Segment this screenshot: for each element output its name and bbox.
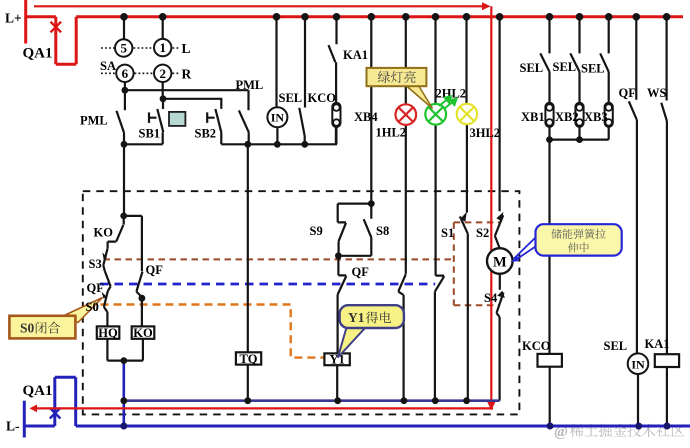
wire join PML-SB1 (124, 132, 163, 144)
svg-text:2: 2 (159, 66, 166, 81)
svg-text:S8: S8 (376, 224, 389, 238)
coil Y1 (324, 353, 349, 365)
QA1 red X mark (51, 22, 62, 33)
contact KO (108, 216, 124, 248)
svg-text:PML: PML (236, 78, 264, 92)
svg-text:5: 5 (120, 41, 127, 56)
brown dashed sub-box around S1 S2 (454, 222, 500, 305)
disconnector QA1 (blue, bottom) (24, 377, 75, 426)
lamp 3HL2 (yellow) (457, 104, 477, 124)
svg-text:6: 6 (122, 66, 129, 81)
S3 brown dashed linkage line (104, 258, 454, 260)
wire joining XB1 XB2 XB3 (550, 139, 609, 141)
green flow arrows at 2HL2 (439, 96, 457, 108)
svg-text:SEL: SEL (553, 60, 577, 74)
contact S0 (104, 291, 108, 326)
lamp 2HL2 (green) (425, 104, 446, 125)
L- bus (76, 425, 690, 428)
svg-text:SEL: SEL (520, 61, 544, 75)
wire join SB2 to XB4 column (221, 127, 336, 144)
svg-text:WS: WS (647, 86, 667, 100)
svg-text:IN: IN (271, 111, 285, 125)
svg-text:QF: QF (619, 86, 637, 100)
SA selector switch wires (124, 17, 163, 40)
junction dots L- bus (120, 423, 670, 430)
contact S3 (103, 248, 107, 271)
svg-text:XB4: XB4 (354, 110, 378, 124)
relay coil SEL IN (bottom right) (628, 353, 649, 374)
svg-text:SEL: SEL (581, 62, 605, 76)
contact KCO (299, 17, 305, 145)
wire TQ column (247, 144, 249, 352)
contact QF above Y1 (338, 256, 347, 354)
indicator window (teal rectangle) (169, 112, 185, 126)
callout S0 closed (yellow box) (62, 298, 103, 323)
svg-text:S0: S0 (20, 320, 35, 335)
contact S8 (364, 204, 372, 256)
L- terminal stub (23, 401, 26, 438)
svg-text:QA1: QA1 (23, 383, 53, 399)
contact SEL column XB2 (570, 17, 579, 140)
svg-text:KO: KO (94, 225, 114, 239)
svg-text:L+: L+ (5, 11, 22, 26)
svg-text:Y1: Y1 (348, 310, 365, 325)
svg-text:S3: S3 (89, 257, 102, 271)
fuse plug XB3 (605, 103, 613, 127)
svg-text:L-: L- (6, 419, 20, 434)
svg-text:1HL2: 1HL2 (376, 126, 407, 140)
coil TQ (236, 352, 261, 364)
svg-text:KA1: KA1 (645, 337, 670, 351)
wire KCO column (548, 140, 550, 354)
wire node row to PML contacts (125, 89, 249, 91)
wire node to SB2 (163, 99, 221, 109)
svg-text:SB1: SB1 (139, 127, 161, 141)
red current path bottom return line with arrow (36, 407, 493, 409)
coil KA1 (655, 354, 679, 367)
contact SEL column XB3 (600, 17, 609, 140)
svg-text:QA1: QA1 (23, 46, 53, 62)
SA dotted link lines (101, 48, 180, 73)
SA contact circle 1 (154, 39, 171, 56)
travel switch S1 (460, 216, 468, 400)
junction dots navy return (120, 397, 470, 404)
svg-text:SEL: SEL (604, 339, 628, 353)
wire blue drop from HQ KO (123, 361, 126, 426)
svg-text:QF: QF (87, 281, 105, 295)
contact PML (left) (117, 90, 125, 144)
lamp 3HL2 column wire (465, 17, 468, 213)
svg-text:S9: S9 (310, 224, 323, 238)
contact WS (661, 17, 667, 354)
lamp 2HL2 column wire (434, 17, 436, 276)
QA1 blue X mark (50, 408, 61, 419)
wire from contact 6 down to node (124, 82, 126, 90)
contact QF right (629, 17, 637, 354)
branch to QF contact over KO coil (124, 216, 143, 327)
svg-text:S0: S0 (86, 300, 99, 314)
contact QF left chain (105, 271, 111, 291)
svg-text:QF: QF (352, 265, 370, 279)
svg-text:L: L (182, 41, 191, 56)
svg-text:S1: S1 (441, 226, 454, 240)
svg-text:KA1: KA1 (343, 48, 368, 62)
svg-text:SEL: SEL (279, 91, 303, 105)
svg-text:IN: IN (631, 357, 645, 371)
contact QF on 2HL2 column (435, 276, 444, 401)
L+ terminal stub (24, 0, 27, 44)
callout green lamp on (yellow box) (406, 86, 433, 109)
disconnector contacts SEL column XB1 (540, 17, 549, 140)
pushbutton SB1 (149, 99, 163, 132)
svg-text:S2: S2 (476, 226, 489, 240)
junction dots circuit (120, 87, 583, 364)
svg-text:1: 1 (159, 40, 166, 55)
contact S9 (338, 222, 346, 255)
wire XB4 to join (335, 127, 337, 144)
svg-text:KCO: KCO (522, 339, 551, 353)
contact PML (right) (239, 90, 249, 144)
SA contact circle 5 (115, 39, 132, 56)
svg-text:XB2: XB2 (555, 110, 579, 124)
fuse plug XB4 (332, 103, 340, 127)
svg-text:HQ: HQ (98, 326, 118, 340)
motor M (487, 248, 513, 274)
travel switch S4 (497, 274, 504, 401)
left chain feed wire (123, 144, 125, 216)
L+ bus (76, 15, 683, 18)
callout spring charging (yellow rounded box, blue border) (514, 238, 536, 261)
disconnector QA1 (red, top) (26, 17, 76, 64)
mechanism dashed enclosure box (83, 191, 520, 414)
fuse plug XB1 (545, 103, 553, 127)
svg-text:3HL2: 3HL2 (470, 126, 501, 140)
lamp 1HL2 (red) (396, 104, 417, 125)
svg-text:SA: SA (100, 59, 116, 73)
svg-text:SB2: SB2 (195, 127, 217, 141)
coil KO (132, 326, 155, 338)
wire middle return (navy) (124, 399, 500, 402)
svg-text:KCO: KCO (308, 91, 337, 105)
anti-pump relay SEL coil IN (275, 17, 277, 107)
svg-text:XB3: XB3 (584, 110, 608, 124)
wire joining HQ KO bottoms (107, 339, 142, 361)
S9 S8 parallel feed column (338, 17, 372, 223)
svg-text:S4: S4 (484, 291, 498, 305)
svg-text:R: R (182, 67, 192, 82)
contact KA1 (329, 17, 337, 104)
motor M column (499, 17, 501, 212)
svg-text:TQ: TQ (239, 352, 257, 366)
red current path vertical line (490, 6, 492, 402)
callout Y1 energized (yellow rounded box) (338, 328, 366, 358)
junction dots top bus (120, 13, 670, 21)
wire parallel bottom (338, 255, 371, 257)
red current path top line with arrow (34, 5, 483, 7)
travel switch S2 (495, 215, 503, 248)
contact QF on 1HL2 column (398, 274, 406, 401)
svg-text:PML: PML (80, 114, 108, 128)
svg-text:QF: QF (146, 263, 164, 277)
svg-text:KO: KO (133, 326, 153, 340)
QF blue dashed linkage line (100, 283, 435, 286)
svg-text:M: M (493, 255, 507, 271)
svg-text:XB1: XB1 (521, 110, 545, 124)
S0 orange dashed linkage path to Y1 (101, 305, 325, 358)
SA contact circle 6 (116, 65, 133, 82)
SA contact circle 2 (154, 65, 171, 82)
wire from contact 2 down (162, 82, 164, 99)
coil KCO (538, 354, 562, 367)
svg-text:Y1: Y1 (329, 353, 344, 367)
pushbutton SB2 (207, 109, 221, 144)
fuse plug XB2 (575, 103, 583, 127)
coil HQ (97, 326, 120, 338)
lamp 1HL2 column wire (405, 17, 407, 274)
